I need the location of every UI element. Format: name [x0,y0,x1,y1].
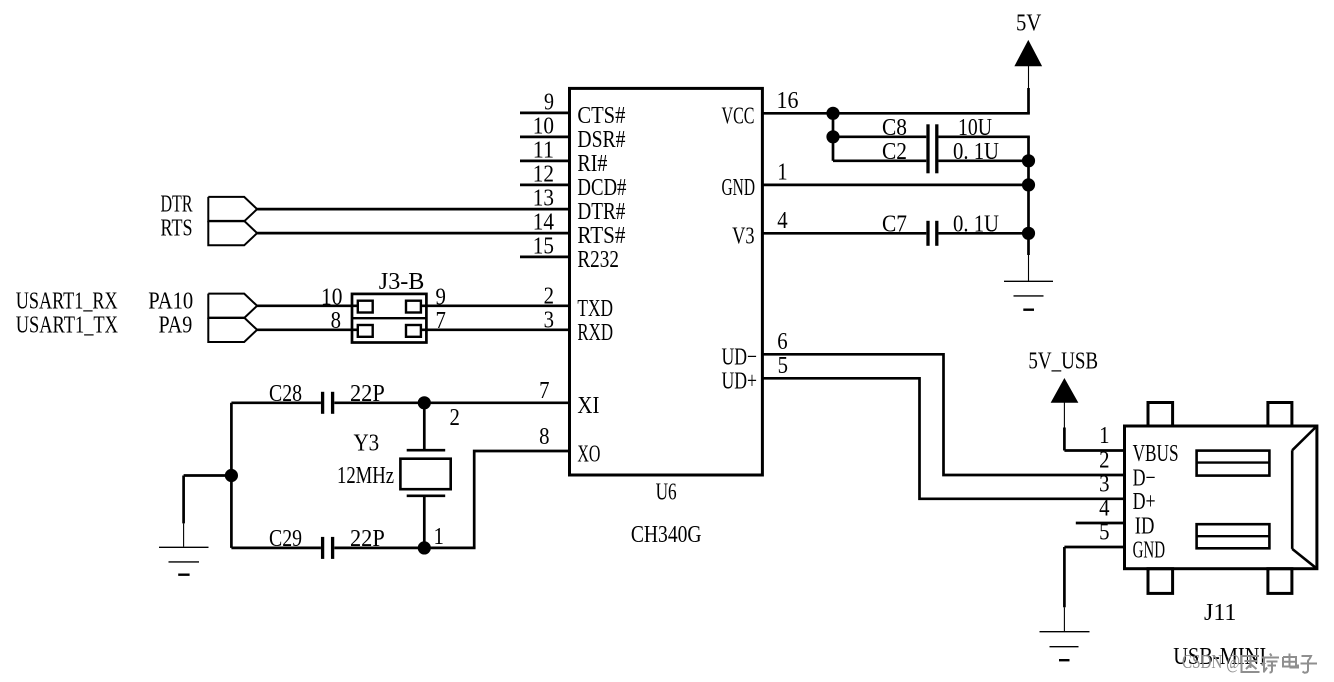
svg-text:1: 1 [777,158,787,185]
svg-text:11: 11 [533,136,554,163]
svg-text:3: 3 [544,306,554,333]
svg-text:5V: 5V [1016,9,1042,36]
svg-text:C2: C2 [882,138,907,165]
svg-text:4: 4 [1099,495,1109,522]
svg-text:15: 15 [533,232,554,259]
svg-text:16: 16 [777,87,799,114]
svg-text:C7: C7 [882,210,907,237]
svg-text:TXD: TXD [577,295,613,322]
svg-text:Y3: Y3 [354,429,380,456]
svg-text:22P: 22P [350,380,385,407]
svg-text:J3-B: J3-B [379,268,425,295]
svg-text:DTR#: DTR# [577,198,625,225]
svg-text:V3: V3 [732,223,754,250]
svg-text:8: 8 [331,307,341,334]
svg-text:VCC: VCC [722,103,755,130]
svg-text:0. 1U: 0. 1U [953,210,999,237]
svg-text:GND: GND [722,174,756,201]
svg-text:VBUS: VBUS [1133,440,1179,467]
svg-text:7: 7 [436,307,446,334]
svg-text:1: 1 [434,523,444,550]
svg-text:DCD#: DCD# [577,174,626,201]
svg-text:D+: D+ [1133,488,1156,515]
svg-text:2: 2 [544,282,554,309]
svg-text:CTS#: CTS# [577,102,625,129]
svg-text:14: 14 [533,208,554,235]
svg-text:C29: C29 [269,525,302,552]
svg-text:R232: R232 [577,246,619,273]
svg-text:12: 12 [533,160,554,187]
svg-text:5V_USB: 5V_USB [1028,347,1098,374]
svg-text:9: 9 [544,88,554,115]
svg-text:7: 7 [539,377,549,404]
svg-text:J11: J11 [1204,599,1236,626]
svg-text:5: 5 [1099,519,1109,546]
svg-text:RXD: RXD [577,319,613,346]
svg-text:1: 1 [1099,422,1109,449]
svg-text:10: 10 [533,112,554,139]
svg-text:PA10: PA10 [148,287,193,314]
svg-text:PA9: PA9 [159,311,193,338]
svg-text:ID: ID [1135,512,1155,539]
svg-text:22P: 22P [350,525,385,552]
svg-text:C8: C8 [882,114,907,141]
svg-text:3: 3 [1099,471,1109,498]
svg-text:CSDN @: CSDN @ [1182,651,1240,673]
svg-text:GND: GND [1133,536,1165,563]
svg-text:12MHz: 12MHz [337,462,394,489]
svg-text:5: 5 [778,352,788,379]
svg-text:0. 1U: 0. 1U [953,138,999,165]
svg-text:CH340G: CH340G [631,521,702,548]
svg-text:USART1_RX: USART1_RX [16,287,118,314]
svg-text:DTR: DTR [161,191,193,218]
svg-text:2: 2 [450,404,460,431]
svg-text:UD+: UD+ [722,368,758,395]
svg-text:USART1_TX: USART1_TX [16,311,119,338]
svg-text:RTS#: RTS# [577,222,625,249]
svg-text:XO: XO [577,440,600,467]
svg-text:U6: U6 [656,479,677,506]
svg-text:10U: 10U [958,114,992,141]
svg-text:RI#: RI# [577,150,607,177]
svg-text:13: 13 [533,184,554,211]
svg-text:C28: C28 [269,380,302,407]
svg-text:UD−: UD− [722,344,758,371]
svg-text:RTS: RTS [161,215,193,242]
svg-text:4: 4 [777,207,787,234]
svg-text:8: 8 [539,423,549,450]
svg-text:XI: XI [577,392,599,419]
svg-text:DSR#: DSR# [577,126,625,153]
